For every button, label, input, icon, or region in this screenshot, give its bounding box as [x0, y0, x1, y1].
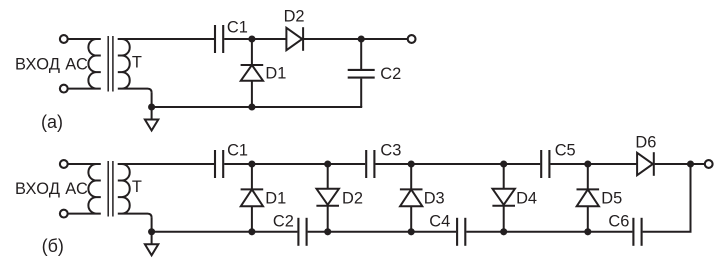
svg-text:C3: C3 [380, 142, 401, 160]
svg-text:D2: D2 [342, 189, 363, 207]
svg-text:C1: C1 [227, 18, 248, 36]
svg-text:D2: D2 [284, 8, 305, 26]
svg-text:T: T [132, 178, 142, 196]
svg-text:(а): (а) [41, 112, 63, 132]
svg-text:D1: D1 [265, 189, 286, 207]
svg-text:C6: C6 [608, 212, 629, 230]
svg-text:C1: C1 [227, 141, 248, 159]
svg-text:D3: D3 [424, 189, 445, 207]
svg-text:ВХОД АС: ВХОД АС [15, 180, 88, 198]
svg-text:ВХОД АС: ВХОД АС [15, 55, 88, 73]
svg-text:C2: C2 [380, 65, 401, 83]
svg-text:(б): (б) [42, 236, 64, 256]
svg-text:D4: D4 [516, 189, 537, 207]
svg-text:T: T [132, 54, 142, 72]
svg-text:D6: D6 [635, 134, 656, 152]
svg-text:C2: C2 [273, 212, 294, 230]
svg-text:D5: D5 [601, 189, 622, 207]
svg-text:D1: D1 [265, 65, 286, 83]
svg-text:C5: C5 [555, 142, 576, 160]
svg-text:C4: C4 [429, 213, 450, 231]
